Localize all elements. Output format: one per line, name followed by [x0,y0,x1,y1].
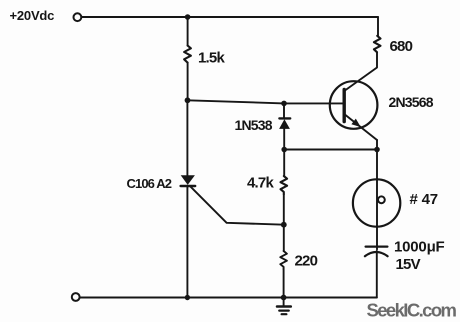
svg-text:1.5k: 1.5k [198,50,225,67]
svg-text:# 47: # 47 [410,191,438,208]
svg-text:C106 A2: C106 A2 [127,176,172,191]
svg-text:1000μF: 1000μF [394,239,445,256]
svg-text:4.7k: 4.7k [247,175,274,192]
svg-text:2N3568: 2N3568 [389,94,434,110]
svg-text:15V: 15V [396,256,421,273]
svg-text:680: 680 [390,38,413,55]
svg-text:+20Vdc: +20Vdc [10,8,55,23]
svg-text:1N538: 1N538 [235,117,273,133]
svg-text:SeekIC.com: SeekIC.com [367,300,457,321]
svg-text:220: 220 [295,253,318,270]
